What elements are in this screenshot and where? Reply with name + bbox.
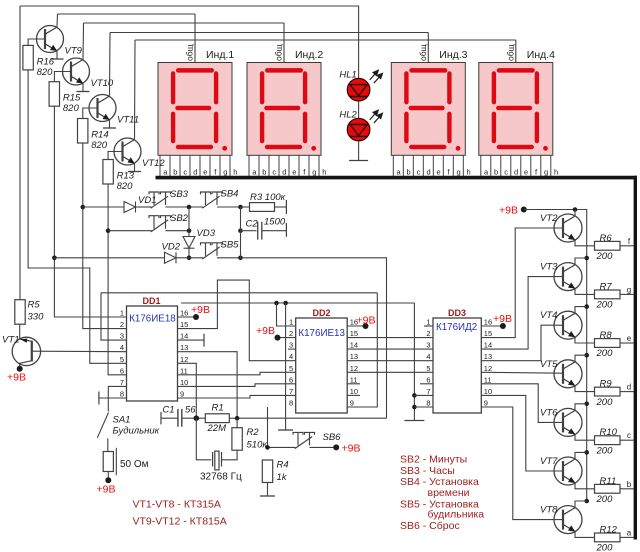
svg-text:VT5: VT5 [540,359,558,370]
wire R1 to SB5 drop [230,417,387,419]
DD3 right pin numbers 16-9 [484,318,492,408]
wire DD2 pin13 to DD3 pin4 [347,360,433,362]
wire DD2 pin3 stub [288,348,296,350]
pin letters a-h of Инд.1 [163,167,237,176]
svg-text:14: 14 [484,341,492,350]
wire R14 to DD1 pin2 [83,143,127,329]
diode VD3 [183,237,195,249]
junction VT1 +9V [17,366,23,372]
wire DD3 to VT8 base [481,407,563,520]
wire DD2 pin16 to +9V [347,325,365,327]
junction VT5 collector [584,353,589,358]
svg-text:общ: общ [274,44,284,61]
wire DD1 pin12 to C1/R1 node [178,363,197,418]
svg-text:+9В: +9В [499,205,518,217]
7-segment display Инд.1 [158,63,232,156]
transistor VT1 [12,337,40,365]
resistor R8 [595,339,621,348]
wire DD3 pin1 stub [424,325,433,327]
wire H2 clock line [101,292,377,294]
wire VT9 base to R16 [28,39,45,45]
terminator C2 right [285,223,287,237]
junction R1/R2 [235,416,240,421]
junction +9V DD2 pin2 [275,335,281,341]
svg-text:e: e [437,167,441,176]
svg-text:11: 11 [180,366,188,375]
wire to DD2 pin1 [277,303,296,326]
svg-text:общ: общ [185,44,195,61]
resistor R1 [205,414,229,423]
wire R8 to bus [620,342,634,344]
wire DD2 pin10 stub [347,394,360,396]
wire VT9 collector [56,14,59,27]
svg-text:К176ИЕ13: К176ИЕ13 [298,328,345,339]
wire SB5 to node [217,257,241,259]
junction SB2/VD3 [187,228,192,233]
svg-text:56: 56 [185,405,196,416]
svg-text:8: 8 [426,399,430,408]
svg-text:4: 4 [289,352,293,361]
transistor VT12 [114,138,141,165]
svg-text:200: 200 [596,348,614,359]
svg-text:Инд.4: Инд.4 [527,49,555,61]
svg-text:VD2: VD2 [162,241,181,252]
wire R10 to bus [620,439,634,441]
svg-text:R12: R12 [600,524,618,535]
svg-text:VT12: VT12 [142,158,165,169]
wire DD2 pin11 stub [347,383,360,385]
ground DD3 [404,420,424,422]
wire VT4 emitter to R8 [575,337,595,343]
wire VT9 collector rail to Инд.1 [58,13,196,15]
wire node column VD3 top [188,207,190,237]
svg-text:d: d [282,167,286,176]
svg-text:d: d [514,167,518,176]
svg-text:5: 5 [120,355,124,364]
svg-text:22М: 22М [207,423,227,434]
svg-text:R11: R11 [600,476,617,487]
svg-text:R1: R1 [212,403,224,414]
wire VT2 emitter to R6 [575,240,595,246]
button SB2 [149,216,171,232]
svg-text:VT10: VT10 [91,78,114,89]
svg-text:e: e [524,167,528,176]
svg-text:32768 Гц: 32768 Гц [200,472,242,483]
resistor R11 [595,484,621,493]
wire ground drop to bar [285,303,287,430]
wire C1 to R1 [182,417,206,419]
svg-text:11: 11 [350,375,358,384]
button SB3 [149,192,171,208]
svg-text:Будильник: Будильник [113,426,160,437]
svg-text:времени: времени [428,487,470,499]
svg-text:R13: R13 [117,171,135,182]
wire DD2 pin2 to +9V [278,337,296,339]
wire to SB2 [108,230,151,232]
wire R5 to VT1 [19,324,21,339]
wire DD3 to VT2 base [481,228,563,338]
svg-text:h: h [233,167,237,176]
svg-text:c: c [183,167,187,176]
svg-text:SB6: SB6 [323,432,342,443]
wire rail left vertical to R5 [19,6,21,300]
junction SB5 right [238,255,243,260]
svg-text:14: 14 [180,332,188,341]
wire ground bus H3 [181,302,414,304]
resistor R12 [595,533,621,542]
svg-text:1k: 1k [277,472,288,483]
wire DD3 pin16 to +9V [481,325,503,327]
ground VT9 emitter [51,58,64,60]
svg-text:VT1-VT8 - КТ315А: VT1-VT8 - КТ315А [133,499,221,511]
wire VT9 emitter [56,51,58,59]
svg-text:DD1: DD1 [142,296,160,306]
svg-text:200: 200 [596,397,614,408]
svg-text:6: 6 [426,375,430,384]
wire R16 to DD1 pin5 [28,70,126,363]
wire R3 right [275,206,287,208]
svg-text:HL2: HL2 [339,110,357,121]
wire R13 to DD1 pin6 [108,184,126,375]
IC DD1 К176ИЕ18 [127,306,178,401]
terminator DD1 pin8 [98,392,100,405]
svg-text:820: 820 [91,140,108,151]
quartz ZQ1 32768 Гц [213,451,222,470]
svg-text:1: 1 [289,318,293,327]
svg-text:h: h [322,167,326,176]
resistor R15 [49,82,59,107]
wire C2 right [262,230,287,232]
wire VT4 collector [575,307,587,313]
wire VT3 emitter to R7 [575,289,595,295]
junction R15/VD2 row [52,255,57,260]
svg-text:c: c [272,167,276,176]
wire VT11 base to R14 [83,108,98,119]
terminator C1 left [160,412,162,425]
svg-text:R4: R4 [277,460,289,471]
svg-text:9: 9 [484,399,488,408]
wire общ Инд.1 [194,14,196,63]
IC DD2 К176ИЕ13 [296,318,348,413]
svg-text:SB3 - Часы: SB3 - Часы [400,465,455,477]
svg-text:12: 12 [180,355,188,364]
wire R15 to DD1 pin1 [54,106,126,317]
wire terminator to C1 [161,417,178,419]
wire +9V rail top to HL1 [20,6,359,78]
wire VT10 emitter [82,84,84,92]
svg-text:8: 8 [120,390,124,399]
svg-text:b: b [627,480,632,489]
wire R9 to bus [620,391,634,393]
junction SB4/R3 [238,205,243,210]
svg-text:4: 4 [120,343,124,352]
svg-text:c: c [504,167,508,176]
button SB6 [293,432,315,448]
wire DD1 pin9 to DD2 pin7 [178,395,296,398]
wire VT2 collector [574,210,576,216]
wire VD3 to SB5 row [188,248,190,258]
wire quartz right to R2 [222,450,238,460]
svg-text:VT9-VT12 - КТ815А: VT9-VT12 - КТ815А [133,516,227,528]
svg-text:7: 7 [289,387,293,396]
wire SB6 to +9V [310,446,337,448]
wire общ Инд.4 [515,40,517,63]
svg-text:16: 16 [484,318,492,327]
svg-text:2: 2 [289,329,293,338]
arrows of LED HL1 [370,70,383,83]
svg-text:5: 5 [426,364,430,373]
resistor R3 [250,203,275,212]
svg-text:общ: общ [418,44,428,61]
transistor VT3 [554,263,582,291]
svg-text:R8: R8 [600,330,613,341]
wire VT5 emitter to R9 [575,386,595,392]
ground VT11 emitter [103,127,116,129]
LED HL1 [347,78,370,101]
svg-text:13: 13 [350,352,358,361]
diode VD2 [165,252,177,263]
svg-text:16: 16 [180,309,188,318]
ground near SB6 [278,429,293,431]
resistor R7 [595,290,621,299]
switch SA1 [97,413,108,438]
transistor VT10 [63,58,90,85]
wire HL2 to ground [358,141,360,161]
wire VD1 to SB3 [136,206,152,208]
legend SB2-SB6 [400,454,484,533]
wire DD3 pin7 [414,394,433,396]
svg-text:R10: R10 [600,427,618,438]
svg-text:общ: общ [505,44,515,61]
ground R4 [260,495,275,497]
svg-text:SB3: SB3 [170,189,189,200]
transistor VT9 [37,26,64,53]
wire VT7 emitter to R11 [575,483,595,489]
wire VT11 collector [109,33,112,96]
wire общ Инд.3 [427,33,429,63]
junction ground drop [283,301,288,306]
svg-text:a: a [627,528,632,537]
pins a-h of Инд.1 [160,155,230,176]
svg-text:50 Ом: 50 Ом [120,459,149,470]
wire R11 to bus [620,488,634,490]
svg-text:+9В: +9В [256,325,275,337]
svg-text:b: b [262,167,266,176]
wire speaker to +9V [107,472,109,481]
svg-text:+9В: +9В [7,372,26,384]
junction +9V DD3 [500,323,506,329]
svg-text:200: 200 [596,543,614,552]
svg-text:SB2 - Минуты: SB2 - Минуты [400,454,467,466]
wire HL1 to HL2 [358,101,360,118]
svg-text:200: 200 [596,445,614,456]
wire VT6 collector [575,404,587,410]
7-segment display Инд.4 [479,63,553,156]
junction VT8 collector [584,499,589,504]
svg-text:200: 200 [596,494,614,505]
svg-text:Инд.3: Инд.3 [439,49,467,61]
wire R7 to bus [620,293,634,295]
DD2 left pin numbers 1-8 [289,318,293,408]
junction C2 row [238,228,243,233]
pins a-h of Инд.3 [393,155,463,176]
wire to SB6 [268,446,296,448]
svg-text:c: c [417,167,421,176]
transistor VT2 [554,214,582,242]
svg-text:6: 6 [120,366,124,375]
wire R4 to ground [267,483,269,497]
svg-text:10: 10 [180,378,188,387]
svg-text:7: 7 [120,378,124,387]
capacitor C2 [258,222,262,240]
terminator DD1 pin14 [203,334,205,347]
svg-text:h: h [467,167,471,176]
svg-text:e: e [627,334,632,343]
wire DD3 to VT5 base [481,371,563,374]
svg-text:820: 820 [63,103,80,114]
svg-text:15: 15 [350,329,358,338]
svg-text:g: g [223,167,227,176]
wire VT8 collector [575,501,587,507]
svg-text:330: 330 [28,312,45,323]
svg-text:VT8: VT8 [540,505,558,516]
svg-text:15: 15 [484,329,492,338]
junction R13/SB2 row [106,228,111,233]
wire node column x240 [240,207,242,258]
wire общ Инд.2 [283,23,285,63]
wire SB2 to node [166,230,190,232]
svg-text:R9: R9 [600,379,613,390]
wire SB3 to SB4 [166,206,204,208]
svg-text:Инд.1: Инд.1 [206,49,234,61]
svg-text:15: 15 [180,320,188,329]
DD1 right pin numbers 16-9 [180,309,188,399]
wire VT11 collector rail to Инд.3 [110,32,428,34]
IC DD3 К176ИД2 [433,318,481,413]
resistor R14 [78,119,88,144]
svg-text:12: 12 [350,364,358,373]
svg-text:VT2: VT2 [540,213,558,224]
svg-text:2: 2 [120,320,124,329]
svg-text:C2: C2 [246,219,259,230]
wire VT3 collector [575,258,587,264]
wire to VD2 [54,257,164,259]
svg-text:R16: R16 [37,56,55,67]
svg-text:b: b [407,167,411,176]
wire DD1 pin16 to +9V [178,316,197,318]
wire DD3 to VT4 base [481,325,563,361]
wire ground drop DD3 [413,303,415,421]
svg-text:820: 820 [37,67,54,78]
capacitor C1 [178,409,182,427]
DD1 left pin numbers 1-8 [120,309,124,399]
svg-text:VT9: VT9 [65,46,83,57]
wire R12 to bus [620,536,634,538]
svg-text:200: 200 [596,300,614,311]
junction VT6 collector [584,402,589,407]
svg-text:будильника: будильника [428,509,485,521]
svg-text:VT6: VT6 [540,407,558,418]
svg-text:R2: R2 [247,427,260,438]
button SB4 [201,192,223,208]
resistor R4 [262,460,272,483]
resistor R9 [595,387,621,396]
terminator R3 right [285,200,287,214]
wire to VD1 [83,206,124,208]
resistor R16 [23,45,33,70]
wire VT5 collector [575,355,587,361]
svg-text:SB5: SB5 [221,240,240,251]
wire VT10 collector [82,23,85,59]
svg-text:R3 100к: R3 100к [250,192,286,203]
svg-text:VT1: VT1 [2,335,19,346]
svg-text:К176ИЕ18: К176ИЕ18 [129,314,176,325]
wire VT1 lower lead [19,363,21,369]
pins a-h of Инд.2 [249,155,319,176]
wire R6 to bus [620,245,634,247]
svg-text:VT3: VT3 [540,262,558,273]
svg-text:g: g [312,167,316,176]
7-segment display Инд.2 [247,63,321,156]
wire DD1 pin13 to R2/R1 node [178,352,238,419]
wire VT1 base to DD1 pin4 [32,350,127,353]
svg-text:DD3: DD3 [448,308,466,318]
wire DD1 pin10 to DD2 pin6 [178,384,296,387]
svg-text:200: 200 [596,251,614,262]
resistor R10 [595,436,621,445]
svg-text:d: d [627,383,631,392]
LED HL2 [347,118,370,141]
svg-text:10: 10 [484,387,492,396]
svg-text:b: b [494,167,498,176]
button SB5 [201,243,223,259]
junction VT7 collector [584,450,589,455]
wire R2 top [236,418,238,428]
wire VT7 collector [575,452,587,458]
svg-text:13: 13 [484,352,492,361]
wire SB4 to node [217,206,241,208]
pin letters a-h of Инд.3 [397,167,471,176]
wire DD3 pin8 [414,406,433,408]
svg-text:+9В: +9В [97,484,116,496]
svg-text:+9В: +9В [342,443,361,455]
wire DD1 pin7 to SA1 [108,386,126,411]
wire VT11 emitter [109,120,111,128]
junction +9V speaker [105,477,111,483]
wire VT12 base to R13 [108,152,122,160]
junction +9V DD2 pin16 [363,323,369,329]
svg-text:R15: R15 [63,93,81,104]
junction +9V SB6 [333,444,339,450]
svg-text:R5: R5 [28,300,41,311]
wire SB5 row to oscillator row [241,258,387,418]
svg-text:К176ИД2: К176ИД2 [436,322,477,333]
junction +9V DD1 [193,314,199,320]
svg-text:VT7: VT7 [540,456,558,467]
wire DD2 pin12 to DD3 pin5 [347,371,433,373]
junction SB3/SB4 [187,205,192,210]
svg-text:c: c [627,431,631,440]
svg-text:DD2: DD2 [312,308,330,318]
transistor VT11 [89,95,116,122]
wire DD1 pin11 to DD2 pin5 [178,372,296,375]
segment bus horizontal (thick) [156,176,637,180]
speaker 50 Ом [103,452,113,472]
svg-text:2: 2 [426,329,430,338]
svg-text:8: 8 [289,399,293,408]
svg-text:1500: 1500 [264,217,286,228]
svg-text:e: e [292,167,296,176]
